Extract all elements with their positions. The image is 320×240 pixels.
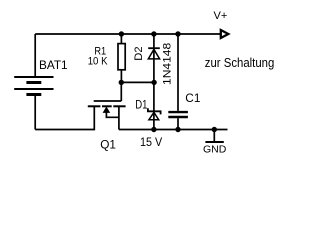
svg-text:V+: V+ <box>214 10 228 22</box>
svg-text:D2: D2 <box>133 46 145 60</box>
diode D2 cathode bar <box>148 47 160 49</box>
svg-text:15 V: 15 V <box>140 135 162 149</box>
battery BAT1 plate 1 <box>14 76 53 78</box>
wire top rail V+ <box>35 33 221 35</box>
capacitor C1 top lead <box>177 34 179 111</box>
node junction D1 bottom <box>151 127 156 132</box>
transistor Q1 gate lead L <box>94 100 122 102</box>
zener D1 vertical line <box>153 82 155 129</box>
transistor Q1 channel bar 2 <box>102 105 112 107</box>
node junction C1 top <box>175 31 180 36</box>
ground bar <box>205 141 223 143</box>
transistor Q1 channel bar 3 <box>113 105 125 107</box>
battery BAT1 plate 2 <box>26 81 41 84</box>
resistor R1 body <box>118 44 125 70</box>
svg-text:GND: GND <box>203 144 227 156</box>
battery BAT1 plate 4 <box>26 93 41 96</box>
node junction gate R1 <box>119 80 124 85</box>
node junction C1 bottom <box>175 127 180 132</box>
node junction R1 top <box>119 31 124 36</box>
svg-text:C1: C1 <box>185 91 200 105</box>
svg-text:10 K: 10 K <box>88 55 108 67</box>
node junction D2 top <box>151 31 156 36</box>
transistor Q1 body arrow stem <box>106 111 119 118</box>
svg-text:Q1: Q1 <box>100 137 116 151</box>
svg-text:zur Schaltung: zur Schaltung <box>205 56 275 70</box>
wire bottom rail <box>119 129 228 131</box>
transistor Q1 channel bar 1 <box>88 105 101 107</box>
svg-text:BAT1: BAT1 <box>39 59 68 72</box>
battery BAT1 top lead <box>34 34 36 76</box>
transistor Q1 source stem <box>118 106 120 129</box>
zener D1 cathode bar with hooks <box>148 108 161 114</box>
capacitor C1 plate 1 <box>168 111 188 113</box>
transistor Q1 body arrow head <box>103 107 109 112</box>
wire battery minus to Q1 drain <box>35 106 94 129</box>
diode D2 triangle <box>148 49 159 59</box>
wire gate node horizontal <box>121 81 154 83</box>
diode D2 vertical line <box>153 34 155 82</box>
node junction gate D2 <box>151 80 156 85</box>
battery BAT1 bottom lead <box>34 96 36 130</box>
capacitor C1 plate 2 <box>168 116 188 118</box>
capacitor C1 bottom lead <box>177 118 179 129</box>
battery BAT1 plate 3 <box>14 88 53 90</box>
zener D1 triangle <box>149 112 159 119</box>
wire gate lead down to Q1 <box>120 82 122 101</box>
svg-text:D1: D1 <box>135 100 147 112</box>
V+ arrow head <box>221 30 229 38</box>
node junction GND <box>212 127 217 132</box>
svg-text:1N4148: 1N4148 <box>162 43 174 85</box>
ground stub <box>213 130 215 143</box>
resistor R1 top lead <box>120 34 122 44</box>
resistor R1 bottom lead <box>120 70 122 83</box>
